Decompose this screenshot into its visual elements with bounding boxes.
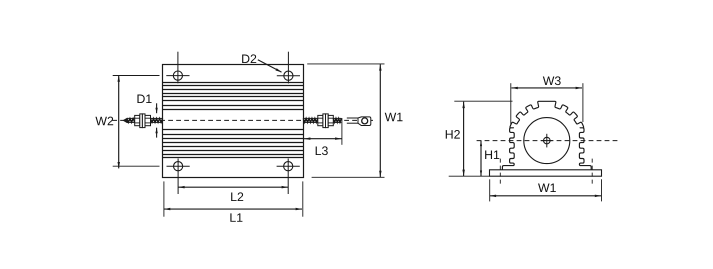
dimension D2 leader line — [258, 60, 282, 73]
center mark — [541, 134, 552, 148]
left terminal lead tip (cone) — [123, 118, 127, 123]
dimension D1 arrows — [155, 103, 157, 137]
finned housing profile (end view) — [502, 101, 591, 170]
dimension W2 extension lines — [113, 76, 160, 167]
right terminal washers — [323, 114, 326, 128]
right terminal nut (inner) — [318, 115, 323, 125]
mounting hole bottom-left (D2) — [167, 159, 190, 195]
dimension H2 extension line top — [454, 100, 512, 102]
label H1 — [485, 151, 492, 159]
dimension W1 (end view) line — [490, 195, 602, 198]
label L3 — [316, 147, 321, 155]
right terminal threaded stud (inner) — [303, 118, 318, 122]
dimension W3 line — [511, 87, 582, 90]
core circle (end view) — [524, 118, 570, 164]
mounting hole top-left (D2) — [166, 52, 189, 84]
label W1 (end view) — [538, 184, 550, 192]
left terminal threaded stud (inner) — [151, 118, 163, 122]
label W3 — [543, 77, 555, 85]
dimension W2 line — [118, 75, 121, 168]
dimension W1 (left view) line — [379, 64, 382, 177]
ring terminal lug — [347, 117, 371, 126]
label H2 — [446, 130, 453, 138]
left terminal nut (inner) — [145, 115, 151, 125]
left terminal threaded stud (outer) — [127, 118, 135, 122]
label L2 — [231, 193, 236, 201]
label D2 — [242, 55, 249, 63]
horizontal centerline (end view) — [477, 140, 618, 142]
label W1 (left view) — [385, 113, 397, 121]
label L1 — [230, 213, 235, 221]
dimension L1 extension lines — [164, 181, 303, 216]
mounting hole bottom-right (D2) — [277, 159, 300, 195]
dimension L3 line — [304, 137, 342, 140]
hidden hole centerline left — [499, 159, 501, 186]
label W2 — [95, 117, 107, 125]
dimension H2 line — [462, 102, 465, 176]
dimension L3 extension line — [341, 118, 343, 145]
dimension H1 line — [480, 141, 482, 176]
left terminal washers — [140, 114, 143, 128]
dimension W3 extension lines — [511, 83, 583, 124]
dimension W1 (end view) extension lines — [490, 179, 602, 201]
dimension W1 (left view) extension lines — [307, 64, 384, 177]
mounting base plate (end view) — [490, 170, 602, 176]
mounting hole top-right (D2) — [277, 52, 300, 84]
label D1 — [137, 95, 144, 103]
heatsink fin lines — [163, 83, 304, 158]
hidden hole centerline right — [591, 159, 593, 186]
left terminal nut (outer) — [135, 115, 140, 125]
dimension L2 line — [178, 186, 288, 189]
dimension L1 line — [164, 208, 302, 211]
resistor body (top view) outline — [163, 65, 304, 178]
horizontal centerline (left view) — [112, 119, 374, 121]
right terminal threaded stud (outer) — [333, 118, 341, 122]
right terminal nut (outer) — [328, 115, 333, 125]
dimension H2/H1 extension line bottom — [449, 175, 490, 177]
